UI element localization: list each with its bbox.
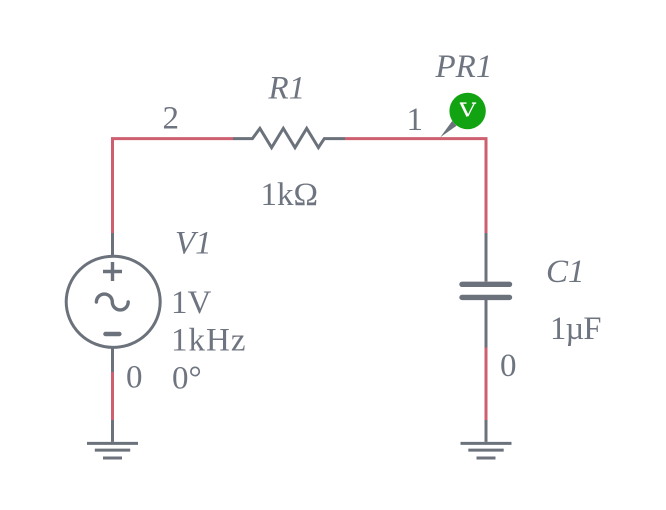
svg-text:V1: V1 <box>175 226 212 262</box>
svg-text:2: 2 <box>163 101 180 137</box>
svg-text:1: 1 <box>407 102 424 138</box>
svg-text:C1: C1 <box>546 254 585 290</box>
svg-text:PR1: PR1 <box>435 49 493 85</box>
svg-text:1V: 1V <box>171 285 212 321</box>
svg-text:0: 0 <box>126 360 143 396</box>
svg-text:1kΩ: 1kΩ <box>261 177 319 213</box>
svg-text:1kHz: 1kHz <box>171 323 246 359</box>
svg-text:0°: 0° <box>172 361 202 397</box>
svg-text:0: 0 <box>500 348 517 384</box>
svg-text:R1: R1 <box>268 71 306 107</box>
svg-text:1µF: 1µF <box>550 311 601 347</box>
